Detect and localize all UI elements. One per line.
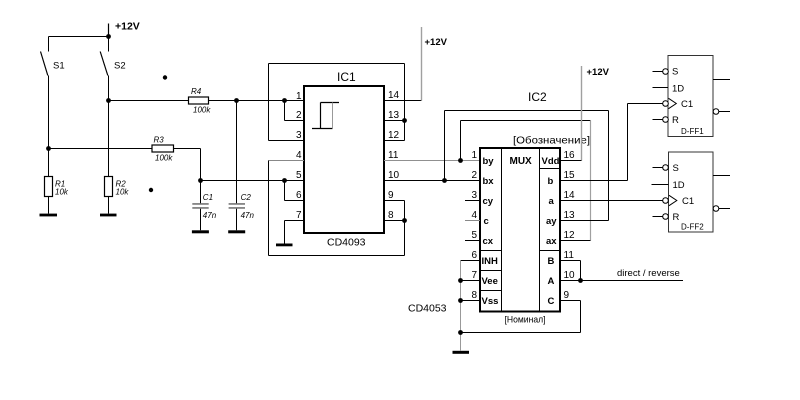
schmitt trigger symbol	[312, 103, 339, 129]
svg-text:1: 1	[296, 91, 302, 102]
FF2 output Qbar	[713, 206, 730, 212]
FF2 pin 1D	[652, 184, 669, 186]
FF1 pin S	[653, 69, 669, 75]
svg-text:11: 11	[564, 250, 575, 261]
capacitor C1	[192, 181, 216, 231]
wire IC1 pin7 to ground	[285, 221, 305, 244]
svg-text:100k: 100k	[193, 106, 211, 115]
FF1 pin R	[653, 117, 669, 123]
wire IC2 pin10 direct/reverse output	[560, 268, 683, 281]
node IC2 pin1 junction	[458, 158, 463, 163]
FF1 pin 1D	[653, 87, 669, 89]
svg-text:6: 6	[472, 250, 478, 261]
wire net B riser (bx to ay)	[445, 111, 609, 221]
svg-text:7: 7	[472, 270, 478, 281]
svg-text:9: 9	[388, 190, 394, 201]
svg-text:CD4093: CD4093	[327, 237, 366, 249]
svg-text:1: 1	[472, 150, 478, 161]
svg-text:S: S	[673, 163, 679, 174]
svg-text:9: 9	[564, 290, 570, 301]
switch S2	[100, 37, 125, 101]
FF1 output Q	[713, 79, 730, 81]
node IC1 pin5/pin6 junction	[282, 178, 287, 183]
svg-text:R: R	[672, 115, 679, 126]
resistor R2	[105, 101, 130, 214]
svg-text:15: 15	[564, 170, 576, 181]
op-amp IC1 body	[304, 70, 384, 249]
svg-text:R3: R3	[154, 136, 165, 145]
node IC2 ground rail junction	[458, 330, 463, 335]
IC2 cell labels	[482, 156, 560, 307]
wire IC1 pin11 to IC2 pin1	[384, 160, 480, 162]
svg-text:1D: 1D	[672, 84, 684, 95]
svg-text:cx: cx	[483, 236, 494, 247]
svg-text:47n: 47n	[203, 211, 217, 220]
svg-text:D-FF2: D-FF2	[681, 223, 704, 232]
FF2 pin R	[653, 214, 669, 220]
IC2 pin numbers right	[564, 150, 576, 301]
svg-text:ay: ay	[546, 216, 557, 227]
svg-text:47n: 47n	[241, 211, 255, 220]
svg-text:IC2: IC2	[528, 90, 547, 104]
wire IC2 pin4 stub	[465, 220, 480, 222]
node S2/R2/R4 junction	[106, 98, 111, 103]
FF1 pin C1 clock	[663, 98, 677, 108]
svg-text:cy: cy	[483, 196, 494, 207]
svg-text:1D: 1D	[673, 180, 685, 191]
svg-text:12: 12	[564, 230, 576, 241]
wire pin6 branch	[285, 181, 305, 201]
capacitor C2	[229, 101, 255, 231]
wire IC2 pins 6,7,8 to ground rail	[461, 261, 481, 351]
svg-text:c: c	[484, 216, 489, 227]
svg-text:C2: C2	[241, 193, 252, 202]
svg-text:6: 6	[296, 190, 302, 201]
svg-text:A: A	[548, 276, 555, 287]
wire top horizontal to S1	[49, 36, 109, 38]
svg-text:bx: bx	[483, 176, 495, 187]
svg-text:+12V: +12V	[425, 37, 448, 48]
svg-text:R: R	[673, 212, 680, 223]
svg-text:10: 10	[388, 170, 400, 181]
wire IC1 pin4 loop to pin8/9	[269, 161, 405, 256]
svg-text:14: 14	[388, 90, 400, 101]
resistor R3	[49, 136, 174, 163]
svg-text:4: 4	[296, 150, 302, 161]
svg-text:2: 2	[296, 110, 302, 121]
ground IC1 pin7	[276, 244, 293, 247]
wire IC1 pin3/12/13 outer loop	[269, 64, 405, 141]
svg-text:8: 8	[388, 210, 394, 221]
svg-text:100k: 100k	[155, 154, 173, 163]
wire R3 to C1 node	[174, 149, 201, 181]
svg-text:4: 4	[472, 210, 478, 221]
svg-text:10: 10	[564, 270, 576, 281]
svg-text:INH: INH	[482, 256, 499, 267]
svg-text:b: b	[548, 176, 554, 187]
svg-text:S1: S1	[53, 61, 65, 72]
ground R2	[100, 214, 117, 217]
wire IC2 pin11 to pin10	[560, 261, 581, 281]
flip-flop U4 D-FF2 body	[669, 152, 714, 232]
svg-text:13: 13	[388, 110, 400, 121]
wire IC2 pin9 loop to ground rail	[461, 301, 581, 333]
svg-text:C1: C1	[682, 196, 694, 207]
svg-text:D-FF1: D-FF1	[681, 127, 704, 136]
IC1 pin numbers left	[296, 91, 302, 221]
node +12V mid supply	[422, 27, 448, 101]
node +12V right supply	[582, 66, 610, 161]
svg-text:C1: C1	[681, 99, 693, 110]
node IC2 pin2 junction	[442, 178, 447, 183]
svg-text:+12V: +12V	[115, 21, 140, 33]
svg-text:16: 16	[564, 150, 576, 161]
svg-text:8: 8	[472, 290, 478, 301]
svg-text:IC1: IC1	[337, 70, 356, 84]
svg-text:ax: ax	[546, 236, 557, 247]
switch S1	[41, 37, 65, 149]
svg-text:7: 7	[296, 210, 302, 221]
FF2 output Q	[713, 175, 730, 177]
svg-text:S: S	[672, 67, 678, 78]
node IC2 pin7 junction	[458, 278, 463, 283]
svg-text:[Номинал]: [Номинал]	[505, 315, 546, 326]
FF1 output Qbar	[713, 109, 730, 115]
node +12V left supply	[106, 21, 140, 39]
svg-text:R4: R4	[191, 87, 202, 96]
ground C1	[192, 230, 209, 233]
wire IC1 pin14	[384, 100, 422, 102]
wire IC2 pin3 stub	[465, 200, 480, 202]
svg-text:10k: 10k	[116, 188, 130, 197]
svg-text:5: 5	[296, 170, 302, 181]
svg-text:2: 2	[472, 170, 478, 181]
FF2 pin C1 clock	[663, 195, 677, 205]
svg-text:[Обозначение]: [Обозначение]	[513, 135, 590, 147]
wire IC2 pin15 b to FF1 C1	[560, 104, 663, 181]
node IC1 pin1/pin2 junction	[282, 98, 287, 103]
wire IC2 pin14 a to FF2 C1	[560, 200, 663, 202]
svg-text:CD4053: CD4053	[408, 303, 447, 315]
IC1 pin numbers right	[388, 90, 400, 221]
svg-text:5: 5	[472, 230, 478, 241]
svg-text:C: C	[548, 296, 555, 307]
node IC2 pin10 junction	[578, 278, 583, 283]
FF2 pin S	[653, 165, 669, 171]
ground IC2	[453, 351, 470, 354]
wire net A riser (by to ax)	[461, 121, 591, 241]
svg-text:direct / reverse: direct / reverse	[617, 268, 680, 279]
svg-text:C1: C1	[203, 193, 213, 202]
wire IC2 pin5 stub	[465, 240, 480, 242]
node C1 top junction	[198, 178, 203, 183]
node IC1 pin13 junction	[402, 118, 407, 123]
stray node dot A	[163, 75, 167, 79]
wire R4 to IC1 pin1	[209, 100, 305, 102]
svg-text:Vdd: Vdd	[542, 156, 560, 167]
ground C2	[228, 230, 245, 233]
svg-text:3: 3	[296, 130, 302, 141]
wire IC1 pin10 to IC2 pin2	[384, 180, 480, 182]
resistor R1	[45, 149, 69, 214]
IC2 pin numbers left	[472, 150, 478, 301]
node S1/R1/R3 junction	[46, 146, 51, 151]
wire pin2 branch	[285, 101, 305, 121]
svg-text:13: 13	[564, 210, 576, 221]
resistor R4	[109, 87, 212, 115]
node IC1 pin8 junction	[402, 218, 407, 223]
svg-text:MUX: MUX	[510, 156, 533, 167]
svg-text:12: 12	[388, 130, 400, 141]
svg-text:S2: S2	[114, 61, 126, 72]
wire IC2 pin16 stub	[560, 160, 582, 162]
stray node dot B	[149, 188, 153, 192]
svg-text:10k: 10k	[55, 188, 69, 197]
svg-text:a: a	[549, 196, 555, 207]
svg-text:by: by	[483, 156, 495, 167]
flip-flop U3 D-FF1 body	[668, 56, 713, 137]
wire C1 node to IC1 pin5	[201, 180, 305, 182]
svg-text:Vss: Vss	[482, 296, 499, 307]
svg-text:14: 14	[564, 190, 576, 201]
svg-text:Vee: Vee	[482, 276, 498, 287]
ground R1	[40, 214, 58, 217]
node IC2 pin8 junction	[458, 298, 463, 303]
op-amp IC2 body	[408, 90, 590, 326]
svg-text:B: B	[548, 256, 555, 267]
node C2 branch junction	[234, 98, 239, 103]
svg-text:+12V: +12V	[587, 67, 610, 78]
svg-text:11: 11	[388, 150, 399, 161]
svg-text:3: 3	[472, 190, 478, 201]
